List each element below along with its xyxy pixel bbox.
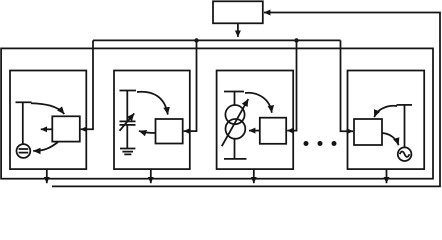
wire drop, arrow into control box U1 [81,40,93,129]
variable transformer T3 adjust arrow [222,99,249,146]
variable transformer T3 coil 2 [226,119,246,139]
variable capacitor C2 plates [120,121,136,125]
wire drop, arrow into control box U4 [341,40,354,131]
curved arrow node bar to control box U3 [245,93,272,113]
wire distribution bus [93,39,341,41]
wire node to DC source [22,102,24,144]
ellipsis dot 1 [304,141,309,146]
control box U3 [260,118,286,144]
oscillator block G3 [217,71,294,170]
DC source E1 circle [17,144,31,158]
wire node to AC source [404,105,406,148]
node bar block G3 [224,91,244,93]
arrow control box U3 to transformer T3 [249,130,260,132]
wire drop, arrow into control box U2 [184,40,197,131]
ground block G2 [120,149,135,155]
oscillator block G4 [348,71,425,170]
node bar block G1 [16,101,32,103]
curved arrow node bar to control box U2 [137,92,168,115]
ellipsis dot 3 [332,141,337,146]
AC source W4 sine wave [400,152,410,157]
node bar block G4 [397,104,413,106]
wire node to transformer [234,92,236,106]
oscillator block G1 [10,71,86,170]
ellipsis dot 2 [318,141,323,146]
arrow oscillator G1 output to bus [46,169,48,183]
oscillator block G2 [114,71,190,170]
junction dot A [194,38,198,42]
control box U2 [156,119,183,144]
variable transformer T3 coil 1 [225,105,244,124]
arrow control box U0 output to distribution bus [237,23,239,37]
system boundary box [1,48,433,178]
wire node to capacitor [126,91,128,122]
junction dot B [294,38,298,42]
AC source W4 circle [398,147,412,161]
wire output bus feedback into control box U0 [52,13,440,187]
arrow oscillator G3 output to bus [253,169,255,183]
wire transformer to bottom bar [234,139,236,159]
arrow oscillator G2 output to bus [150,169,152,183]
wire capacitor to ground [126,125,128,149]
control box U4 [354,119,382,145]
curved arrow node bar to control box U4 [374,106,397,117]
bottom node bar block G3 [224,158,247,160]
wire drop, arrow into control box U3 [287,40,296,130]
DC source E1 plates [19,149,29,153]
control box U1 [52,116,80,141]
node bar block G2 [120,90,137,92]
arrow oscillator G4 output to bus [386,169,388,183]
variable capacitor C2 adjust arrow [120,113,135,130]
curved arrow control box U1 to DC source E1 [33,142,58,151]
curved arrow control box U4 to AC source W4 [382,133,399,145]
curved arrow node bar to control box U1 [31,103,64,114]
control box U0 (common control unit) [213,1,263,23]
arrow control box U1 to wire [41,128,52,130]
curved arrow control box U2 to capacitor C2 [139,131,156,133]
